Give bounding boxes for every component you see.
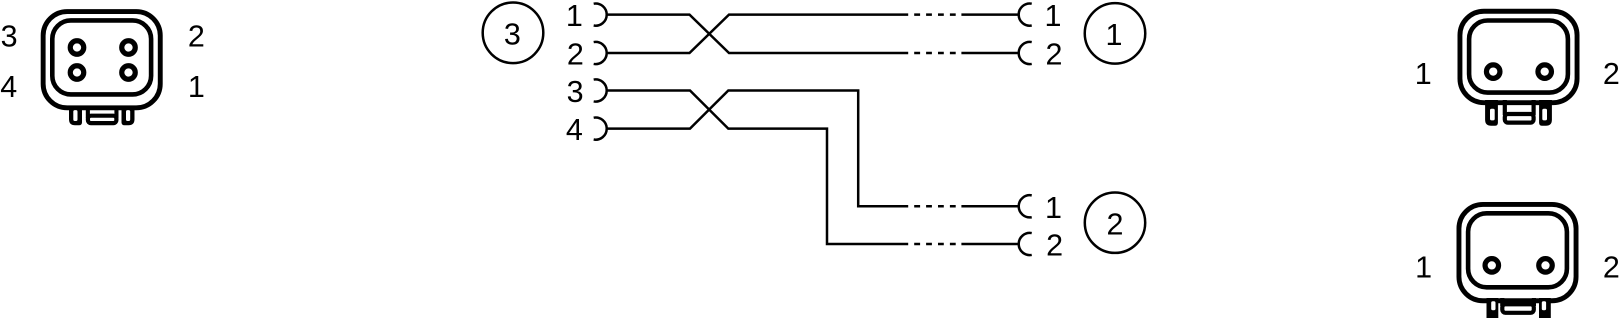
svg-text:2: 2 [1046,38,1063,72]
svg-text:3: 3 [1,20,18,54]
connector P3 pin 4 contact [70,66,84,80]
svg-text:2: 2 [1046,229,1063,263]
svg-text:3: 3 [504,17,521,51]
svg-text:4: 4 [566,113,583,147]
connector P2 pin 2 contact [1539,259,1553,273]
connector P3 pin 3 contact [70,41,84,55]
node 2 (circle reference to connector 2) [1085,193,1145,253]
connector P2 body (lower right 2-pin connector face) [1459,204,1576,300]
svg-text:1: 1 [1415,250,1432,284]
svg-text:1: 1 [1045,191,1062,225]
wire dashed break row 2 [914,52,956,55]
wire dashed break lower row 1 [914,205,956,208]
wire from pin 3 crossing down then routed to lower right row [607,91,909,245]
connector P3 pin 1 contact [122,66,136,80]
svg-text:1: 1 [1106,18,1123,52]
pin socket arc 1 (left) [594,4,607,26]
pin socket arc 4 (left) [594,117,607,139]
wire from pin 2 crossing up to row 1 [607,15,909,53]
svg-text:1: 1 [1045,0,1062,33]
wire from pin 4 crossing up then routed to lower right row [607,91,909,207]
pin socket arc 1 (right upper) [1019,3,1032,25]
svg-text:3: 3 [567,75,584,109]
svg-text:2: 2 [188,20,205,54]
connector P3 pin 2 contact [122,41,136,55]
svg-text:2: 2 [567,38,584,72]
node 1 (circle reference to connector 1) [1085,3,1146,64]
pin socket arc 3 (left) [594,79,607,101]
wire solid end lower row 1 [961,205,1018,208]
wire solid end row 1 [961,13,1018,16]
svg-text:1: 1 [188,70,205,104]
svg-text:4: 4 [0,70,17,104]
svg-text:2: 2 [1603,250,1620,284]
wire solid end lower row 2 [961,243,1018,246]
wire from pin 1 crossing down to row 2 [607,15,909,53]
connector P1 pin 1 contact [1486,65,1500,79]
svg-text:2: 2 [1107,207,1124,241]
pin socket arc 2 (left) [594,42,607,64]
pin socket arc 2 (right lower) [1019,233,1032,255]
connector P1 body (upper right 2-pin connector face) [1460,11,1577,102]
svg-text:1: 1 [1415,57,1432,91]
connector P2 mounting tabs and wedge lock [1487,298,1551,318]
connector P1 mounting tabs and wedge lock [1485,100,1552,126]
connector P3 mounting tabs and wedge lock [69,106,135,125]
wire dashed break lower row 2 [914,243,956,246]
connector P2 pin 1 contact [1485,259,1499,273]
pin socket arc 2 (right upper) [1019,42,1032,64]
svg-text:1: 1 [566,0,583,33]
connector P1 pin 2 contact [1538,65,1552,79]
svg-text:2: 2 [1603,57,1620,91]
pin socket arc 1 (right lower) [1019,195,1032,217]
connector P3 body (left 4-pin connector face) [43,12,160,108]
node 3 (circle reference to connector 3) [483,3,544,64]
wire dashed break row 1 [914,13,956,16]
wire solid end row 2 [961,52,1018,55]
